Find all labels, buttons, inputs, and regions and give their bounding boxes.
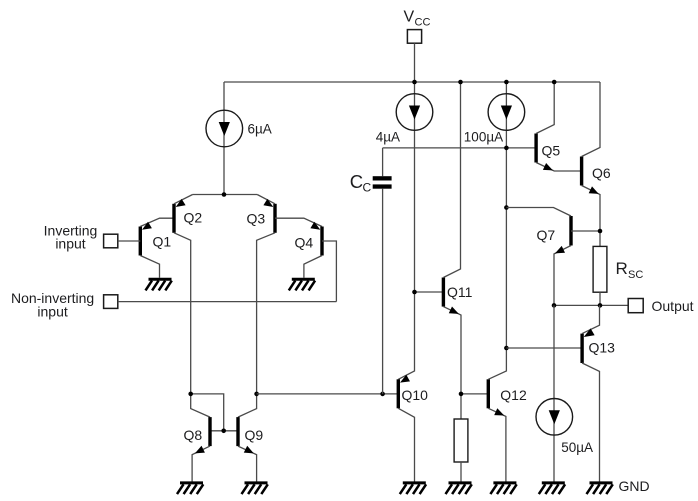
svg-text:6µA: 6µA bbox=[248, 122, 272, 137]
svg-text:Q5: Q5 bbox=[542, 143, 561, 159]
node Q7 base junction bbox=[598, 229, 603, 234]
node Q12 base junction bbox=[459, 392, 464, 397]
wire Q8 collector-base jumper bbox=[191, 394, 224, 431]
wire Q11 base bbox=[415, 291, 444, 293]
node Cc net junction bbox=[504, 146, 509, 151]
ground Q10 bbox=[403, 481, 426, 484]
wire 4uA branch bbox=[398, 82, 414, 379]
transistor Q1 bbox=[139, 218, 174, 278]
transistor Q11 bbox=[442, 82, 461, 419]
terminal non-inverting input bbox=[104, 295, 118, 309]
node Q5 collector rail junction bbox=[552, 80, 557, 85]
svg-text:R: R bbox=[616, 259, 628, 278]
wire non-inverting input bbox=[118, 301, 337, 303]
node Vcc-100uA junction bbox=[504, 80, 509, 85]
ground Q9 bbox=[245, 481, 268, 484]
node Cc bottom junction bbox=[380, 392, 385, 397]
wire 6uA branch bbox=[223, 82, 225, 195]
node Q3-Q9 junction bbox=[254, 392, 259, 397]
transistor Q3 bbox=[238, 195, 322, 418]
ground Q12 bbox=[493, 481, 516, 484]
ground Q11 resistor bbox=[449, 481, 472, 484]
svg-text:Q3: Q3 bbox=[247, 211, 266, 227]
node Q11 base junction bbox=[412, 290, 417, 295]
terminal output square bbox=[628, 299, 643, 313]
node Q13 base junction bbox=[504, 346, 509, 351]
svg-text:Q6: Q6 bbox=[592, 165, 611, 181]
transistor Q4 bbox=[304, 222, 337, 302]
svg-text:input: input bbox=[55, 236, 85, 252]
wire resistor to ground bbox=[460, 462, 462, 482]
transistor Q10 bbox=[397, 375, 415, 482]
ground 50uA bbox=[542, 481, 565, 484]
current source 100uA bbox=[488, 94, 525, 131]
wire Q12 base bbox=[461, 393, 488, 395]
wire Vcc stub bbox=[414, 43, 416, 82]
node tail junction bbox=[222, 192, 227, 197]
svg-text:Q10: Q10 bbox=[402, 387, 429, 403]
svg-text:Q9: Q9 bbox=[245, 427, 264, 443]
wire Q8-Q9 base link bbox=[210, 430, 238, 432]
transistor Q12 bbox=[487, 379, 506, 481]
svg-text:CC: CC bbox=[415, 17, 431, 29]
svg-text:input: input bbox=[37, 304, 67, 320]
wire 50uA branch bbox=[553, 305, 555, 481]
capacitor Cc bbox=[373, 176, 392, 189]
node Q7-50uA junction bbox=[552, 303, 557, 308]
wire Cc top lead bbox=[382, 148, 384, 176]
node Q2-Q8 junction bbox=[188, 392, 193, 397]
svg-text:50µA: 50µA bbox=[561, 440, 593, 455]
wire 100uA branch bbox=[488, 82, 506, 379]
terminal inverting input bbox=[104, 234, 118, 248]
node Q8-Q9 base junction bbox=[221, 429, 226, 434]
resistor Rsc bbox=[593, 246, 607, 292]
current source 6uA bbox=[206, 110, 243, 147]
svg-text:Q1: Q1 bbox=[153, 234, 172, 250]
terminal Vcc square bbox=[407, 30, 421, 44]
ground Q1 bbox=[149, 278, 172, 281]
svg-text:Q13: Q13 bbox=[589, 340, 616, 356]
svg-text:Q7: Q7 bbox=[537, 227, 556, 243]
svg-text:Q4: Q4 bbox=[295, 235, 314, 251]
node Rsc-output junction bbox=[598, 303, 603, 308]
ground Q13 GND bbox=[590, 481, 613, 484]
resistor Q11 emitter bbox=[454, 419, 468, 462]
node Vcc-4uA junction bbox=[412, 80, 417, 85]
node Q7 collector junction bbox=[504, 205, 509, 210]
wire input tail node bbox=[193, 194, 258, 196]
wire first stage output net bbox=[257, 393, 399, 395]
svg-text:GND: GND bbox=[619, 478, 650, 494]
svg-text:Output: Output bbox=[652, 298, 694, 314]
wire Q13 base bbox=[506, 347, 582, 349]
transistor Q8 bbox=[192, 417, 212, 481]
svg-text:C: C bbox=[350, 171, 363, 192]
transistor Q7 bbox=[506, 208, 600, 306]
ground Q4 bbox=[292, 278, 315, 281]
svg-text:Q12: Q12 bbox=[500, 387, 527, 403]
svg-text:Q8: Q8 bbox=[184, 427, 203, 443]
svg-text:V: V bbox=[404, 9, 415, 26]
transistor Q13 bbox=[580, 305, 599, 481]
transistor Q5 bbox=[534, 82, 581, 171]
transistor Q6 bbox=[580, 82, 600, 246]
ground Q8 bbox=[180, 481, 203, 484]
wire Vcc top rail bbox=[224, 81, 600, 83]
wire output line bbox=[554, 304, 628, 306]
transistor Q9 bbox=[236, 417, 256, 481]
wire Cc bottom lead bbox=[382, 189, 384, 394]
svg-text:SC: SC bbox=[628, 269, 643, 281]
svg-text:C: C bbox=[363, 181, 372, 195]
svg-text:100µA: 100µA bbox=[464, 129, 503, 144]
svg-text:Q11: Q11 bbox=[447, 284, 473, 300]
node Q11 collector rail junction bbox=[458, 80, 463, 85]
svg-text:Q2: Q2 bbox=[184, 210, 203, 226]
current source 4uA bbox=[396, 94, 433, 131]
transistor Q2 bbox=[172, 195, 210, 418]
svg-text:4µA: 4µA bbox=[376, 129, 400, 144]
wire inverting input bbox=[118, 240, 141, 242]
wire Rsc bottom bbox=[599, 292, 601, 305]
wire Cc net horizontal bbox=[383, 147, 536, 149]
current source 50uA bbox=[536, 399, 573, 436]
